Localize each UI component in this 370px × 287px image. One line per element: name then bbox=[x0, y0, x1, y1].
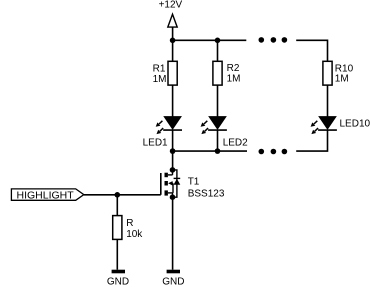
svg-text:GND: GND bbox=[162, 277, 184, 287]
resistor R 10k bbox=[113, 216, 122, 240]
continuation dots top rail bbox=[259, 37, 288, 43]
wire +12V feed to rail bbox=[172, 27, 174, 40]
junction T1 drain / body diode bbox=[170, 167, 176, 173]
svg-text:1M: 1M bbox=[227, 74, 241, 85]
wire LED1 to bottom rail bbox=[172, 130, 174, 151]
wire junction to R 10k bbox=[116, 195, 118, 216]
svg-text:LED10: LED10 bbox=[340, 118, 370, 129]
junction T1 source / body diode bbox=[170, 194, 176, 200]
svg-text:1M: 1M bbox=[153, 74, 167, 85]
svg-text:GND: GND bbox=[107, 277, 129, 287]
label R 10k bbox=[126, 218, 143, 240]
LED LED1 bbox=[156, 117, 182, 135]
ground GND (right, under T1) bbox=[167, 270, 180, 274]
svg-text:R1: R1 bbox=[153, 64, 166, 75]
wire rail to R1 bbox=[172, 40, 174, 61]
net flag HIGHLIGHT bbox=[11, 189, 83, 201]
junction rail / R1 bbox=[170, 38, 176, 44]
junction bottom rail / LED1 bbox=[170, 148, 176, 154]
power +12V supply symbol bbox=[159, 0, 183, 27]
label R2 1M bbox=[227, 63, 241, 84]
wire LED2 to bottom rail bbox=[217, 130, 219, 151]
LED LED10 bbox=[311, 117, 337, 135]
svg-text:BSS123: BSS123 bbox=[188, 188, 225, 199]
wire T1 source to GND bbox=[172, 197, 174, 270]
label T1 BSS123 bbox=[188, 176, 225, 199]
svg-text:R: R bbox=[126, 218, 133, 229]
wire rail to R2 bbox=[217, 40, 219, 61]
label R10 1M bbox=[335, 63, 354, 84]
svg-text:10k: 10k bbox=[126, 229, 143, 240]
svg-text:T1: T1 bbox=[188, 176, 200, 187]
wire R1 to LED1 bbox=[172, 85, 174, 117]
junction HIGHLIGHT / R bbox=[115, 192, 121, 198]
junction bottom rail / LED2 bbox=[215, 148, 221, 154]
wire top +12V rail segment left bbox=[173, 39, 247, 41]
svg-text:+12V: +12V bbox=[159, 0, 183, 11]
wire HIGHLIGHT to junction bbox=[84, 194, 118, 196]
wire bottom rail to T1 drain bbox=[172, 151, 174, 170]
svg-text:LED1: LED1 bbox=[143, 137, 168, 148]
svg-text:1M: 1M bbox=[335, 74, 349, 85]
svg-text:R2: R2 bbox=[227, 63, 240, 74]
resistor R2 bbox=[213, 61, 222, 85]
wire junction to T1 gate bbox=[117, 194, 161, 196]
wire bottom cathode rail bbox=[173, 150, 247, 152]
ground GND (left, under R) bbox=[112, 270, 125, 274]
label R1 1M bbox=[153, 64, 167, 86]
LED LED2 bbox=[201, 117, 227, 135]
wire LED10 to bottom rail bbox=[296, 130, 327, 151]
wire R to GND bbox=[116, 239, 118, 269]
junction rail / R2 bbox=[215, 38, 221, 44]
resistor R10 bbox=[323, 61, 332, 85]
svg-text:LED2: LED2 bbox=[223, 137, 248, 148]
svg-text:HIGHLIGHT: HIGHLIGHT bbox=[17, 189, 75, 201]
wire R2 to LED2 bbox=[217, 85, 219, 117]
continuation dots bottom rail bbox=[259, 149, 288, 155]
wire top +12V rail segment right bbox=[296, 40, 327, 61]
resistor R1 bbox=[168, 61, 177, 85]
transistor T1 BSS123 n-channel MOSFET bbox=[161, 170, 181, 197]
wire R10 to LED10 bbox=[327, 85, 329, 117]
